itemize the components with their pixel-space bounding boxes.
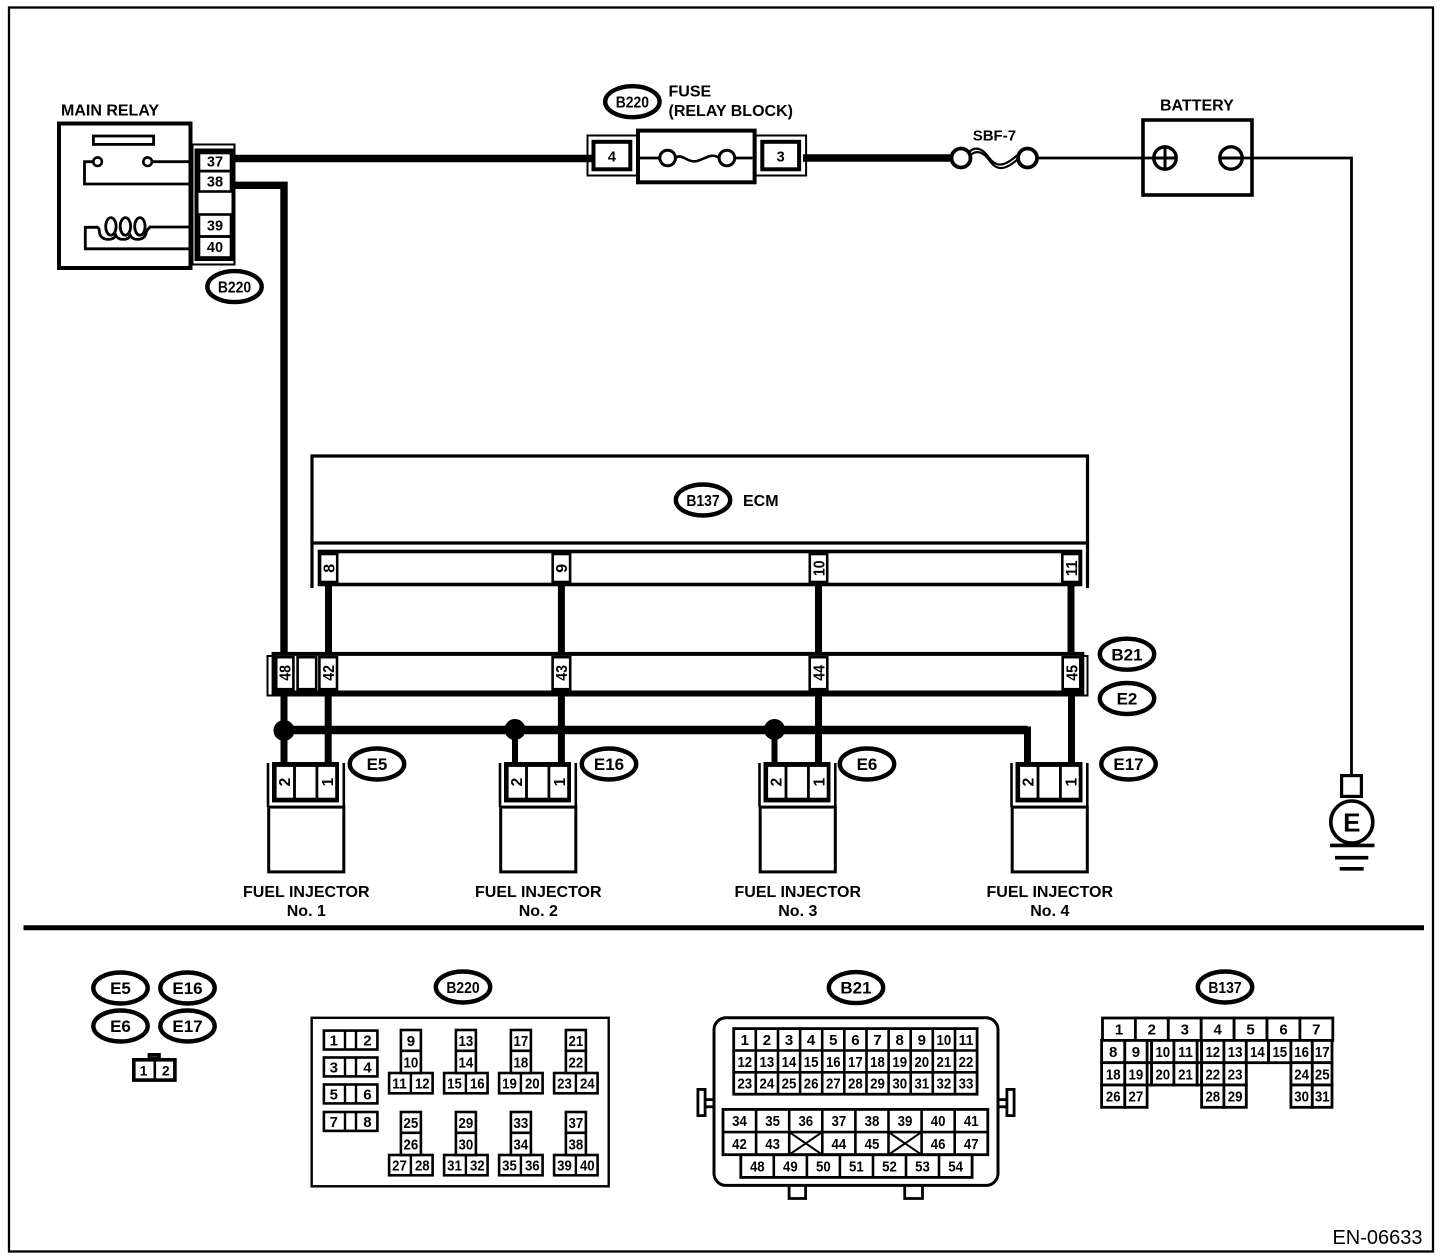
svg-text:7: 7: [330, 1114, 338, 1131]
svg-text:51: 51: [849, 1158, 864, 1175]
svg-text:1: 1: [741, 1032, 749, 1049]
svg-text:46: 46: [931, 1136, 946, 1153]
svg-text:39: 39: [557, 1158, 572, 1175]
svg-text:27: 27: [1129, 1089, 1144, 1106]
svg-text:9: 9: [554, 564, 571, 573]
pin 48: [276, 657, 293, 689]
bus drop to injector 2 pin 2: [512, 728, 518, 764]
svg-text:54: 54: [948, 1158, 963, 1175]
B220 pins 5/6: [324, 1085, 378, 1104]
svg-text:FUEL INJECTOR: FUEL INJECTOR: [243, 884, 370, 901]
main relay contact terminal left: [93, 157, 102, 166]
svg-text:36: 36: [798, 1113, 813, 1130]
pin 40: [199, 237, 231, 258]
svg-text:22: 22: [569, 1054, 584, 1071]
svg-text:43: 43: [554, 665, 571, 681]
wire ECM pin 11: [1068, 585, 1075, 655]
svg-text:21: 21: [937, 1054, 952, 1071]
wire to injector 4 pin 1: [1068, 692, 1075, 764]
svg-text:17: 17: [514, 1033, 529, 1050]
svg-text:(RELAY BLOCK): (RELAY BLOCK): [669, 103, 793, 120]
battery negative terminal: [1220, 147, 1242, 169]
fuel injector No.3: [760, 763, 836, 872]
svg-text:10: 10: [937, 1032, 952, 1049]
fuse terminal 4: [594, 142, 631, 170]
svg-text:4: 4: [363, 1059, 372, 1076]
svg-text:39: 39: [898, 1113, 913, 1130]
svg-text:17: 17: [1315, 1044, 1330, 1061]
B220 pins 33/34/35/36: [499, 1112, 542, 1175]
svg-text:53: 53: [915, 1158, 930, 1175]
svg-text:41: 41: [964, 1113, 979, 1130]
svg-text:18: 18: [870, 1054, 885, 1071]
svg-text:40: 40: [207, 240, 223, 256]
relay connector outline: [193, 145, 235, 265]
connector label B220 (main relay): [207, 271, 261, 302]
svg-text:12: 12: [1205, 1044, 1220, 1061]
battery box: [1143, 120, 1252, 195]
fusible link SBF-7: [952, 149, 1038, 169]
svg-text:2: 2: [763, 1032, 771, 1049]
wire ECM pin 8: [325, 585, 332, 655]
svg-text:2: 2: [162, 1062, 170, 1078]
svg-text:28: 28: [848, 1076, 863, 1093]
pin 45: [1063, 657, 1081, 689]
svg-text:16: 16: [470, 1076, 485, 1093]
svg-text:18: 18: [1106, 1066, 1121, 1083]
svg-text:6: 6: [851, 1032, 859, 1049]
B21 left tab: [698, 1089, 713, 1115]
connector view label E16: [160, 973, 214, 1004]
svg-text:49: 49: [783, 1158, 798, 1175]
bus drop to injector 3 pin 2: [772, 728, 778, 764]
fuse terminal 3 outline: [756, 136, 807, 176]
svg-text:5: 5: [330, 1086, 338, 1103]
svg-text:2: 2: [1020, 778, 1037, 787]
svg-text:43: 43: [765, 1136, 780, 1153]
svg-text:31: 31: [914, 1076, 929, 1093]
ground connector square: [1342, 776, 1362, 797]
wire relay contact to pin 37: [152, 160, 192, 163]
svg-text:24: 24: [760, 1076, 775, 1093]
svg-text:37: 37: [207, 155, 223, 171]
junction node injector 1: [274, 721, 294, 741]
fuse element: [640, 150, 753, 166]
svg-text:16: 16: [826, 1054, 841, 1071]
svg-text:37: 37: [832, 1113, 847, 1130]
svg-text:44: 44: [811, 665, 828, 681]
wire relay coil to pin 40: [85, 227, 192, 249]
ECM connector strip: [320, 552, 1081, 585]
svg-text:4: 4: [1214, 1022, 1223, 1039]
supply bus wire: [284, 726, 1028, 735]
svg-text:37: 37: [569, 1115, 584, 1132]
svg-text:38: 38: [865, 1113, 880, 1130]
svg-text:11: 11: [1178, 1044, 1193, 1061]
svg-text:1: 1: [330, 1032, 338, 1049]
main relay contact terminal right: [143, 157, 152, 166]
svg-text:33: 33: [514, 1115, 529, 1132]
wire pin 37 to fuse terminal 4: [234, 155, 595, 163]
svg-text:38: 38: [207, 175, 223, 191]
svg-text:50: 50: [816, 1158, 831, 1175]
svg-text:24: 24: [1294, 1066, 1309, 1083]
ground symbol: [1330, 845, 1375, 868]
svg-text:No. 4: No. 4: [1030, 903, 1069, 920]
main relay contact bar: [93, 136, 153, 144]
svg-text:38: 38: [569, 1136, 584, 1153]
connector label B220 (fuse): [605, 86, 659, 117]
connector view label B137: [1198, 972, 1252, 1003]
wire ECM pin 9: [558, 585, 565, 655]
svg-text:26: 26: [1106, 1089, 1121, 1106]
B137 pins grid: [1102, 1018, 1333, 1107]
B21 bottom tabs: [789, 1186, 806, 1199]
svg-text:28: 28: [1205, 1089, 1220, 1106]
svg-text:FUEL INJECTOR: FUEL INJECTOR: [475, 884, 602, 901]
bus drop to injector 4 pin 2: [1024, 727, 1031, 765]
svg-text:33: 33: [959, 1076, 974, 1093]
wire SBF-7 to battery: [1037, 157, 1155, 160]
svg-text:FUSE: FUSE: [669, 84, 712, 101]
svg-text:FUEL INJECTOR: FUEL INJECTOR: [735, 884, 862, 901]
connector label B137 (ECM): [676, 485, 730, 516]
pin 38: [199, 171, 231, 191]
svg-text:7: 7: [873, 1032, 881, 1049]
svg-text:EN-06633: EN-06633: [1332, 1227, 1422, 1249]
connector label E6: [840, 749, 894, 780]
junction node injector 2: [505, 720, 525, 740]
svg-text:B21: B21: [840, 979, 871, 998]
svg-text:22: 22: [1205, 1066, 1220, 1083]
fuel injector No.1: [268, 763, 344, 872]
svg-text:E5: E5: [110, 979, 131, 998]
svg-text:40: 40: [580, 1158, 595, 1175]
svg-text:No. 3: No. 3: [778, 903, 817, 920]
svg-text:9: 9: [407, 1033, 415, 1050]
svg-text:29: 29: [459, 1115, 474, 1132]
svg-text:29: 29: [1228, 1089, 1243, 1106]
svg-text:27: 27: [826, 1076, 841, 1093]
wire relay coil to pin 39: [149, 226, 193, 229]
svg-text:19: 19: [892, 1054, 907, 1071]
svg-text:19: 19: [502, 1076, 517, 1093]
ECM pin 11: [1062, 554, 1079, 582]
svg-text:17: 17: [848, 1054, 863, 1071]
svg-text:E6: E6: [857, 755, 878, 774]
battery positive terminal: [1154, 147, 1176, 169]
svg-text:11: 11: [959, 1032, 974, 1049]
svg-text:B21: B21: [1111, 645, 1142, 664]
svg-text:12: 12: [415, 1076, 430, 1093]
svg-text:10: 10: [811, 560, 828, 576]
svg-text:32: 32: [937, 1076, 952, 1093]
svg-text:23: 23: [1228, 1066, 1243, 1083]
svg-text:45: 45: [1064, 665, 1081, 681]
svg-text:2: 2: [768, 778, 785, 787]
connector label E2: [1100, 683, 1154, 714]
B21/E2 connector outline: [268, 656, 1088, 696]
pin 44: [810, 657, 828, 689]
ECM pin 8: [320, 554, 337, 582]
svg-text:13: 13: [459, 1033, 474, 1050]
svg-text:21: 21: [569, 1033, 584, 1050]
connector label B21: [1100, 639, 1154, 670]
svg-text:19: 19: [1129, 1066, 1144, 1083]
svg-text:B137: B137: [686, 493, 719, 510]
svg-text:15: 15: [1272, 1044, 1287, 1061]
svg-text:3: 3: [1181, 1022, 1189, 1039]
relay coil: [96, 218, 151, 240]
svg-text:13: 13: [1228, 1044, 1243, 1061]
svg-text:20: 20: [525, 1076, 540, 1093]
svg-text:15: 15: [447, 1076, 462, 1093]
svg-text:26: 26: [404, 1136, 419, 1153]
wire battery to ground E: [1242, 158, 1351, 775]
B220 connector view box: [312, 1018, 609, 1187]
svg-text:SBF-7: SBF-7: [973, 127, 1016, 144]
svg-text:39: 39: [207, 219, 223, 235]
svg-text:8: 8: [896, 1032, 904, 1049]
svg-text:4: 4: [608, 150, 616, 166]
B220 pins 1/2: [324, 1031, 378, 1050]
wire pin 48 to bus: [281, 692, 288, 764]
svg-text:1: 1: [1115, 1022, 1123, 1039]
wire to injector 2 pin 1: [558, 692, 565, 764]
svg-text:6: 6: [363, 1086, 371, 1103]
svg-text:5: 5: [1246, 1022, 1254, 1039]
svg-text:30: 30: [459, 1136, 474, 1153]
B220 pins 17/18/19/20: [499, 1030, 542, 1093]
svg-text:12: 12: [737, 1054, 752, 1071]
svg-text:1: 1: [320, 777, 337, 786]
B21 right tab: [999, 1089, 1014, 1115]
wire to injector 1 pin 1: [325, 692, 332, 764]
svg-text:20: 20: [914, 1054, 929, 1071]
wire pin 38 to ECM pin 48 net: [234, 185, 285, 655]
fuse terminal 3: [762, 142, 799, 170]
connector label E5: [350, 749, 404, 780]
svg-text:42: 42: [732, 1136, 747, 1153]
svg-text:35: 35: [765, 1113, 780, 1130]
svg-text:E6: E6: [110, 1017, 131, 1036]
svg-text:B220: B220: [616, 95, 649, 112]
connector view label E6: [93, 1011, 147, 1042]
svg-text:14: 14: [782, 1054, 797, 1071]
svg-text:29: 29: [870, 1076, 885, 1093]
B220 pins 9/10/11/12: [389, 1030, 433, 1093]
svg-text:34: 34: [514, 1136, 529, 1153]
svg-text:47: 47: [964, 1136, 979, 1153]
connector view label E17: [160, 1011, 214, 1042]
svg-text:2: 2: [1148, 1022, 1156, 1039]
svg-text:2: 2: [509, 778, 526, 787]
svg-text:25: 25: [782, 1076, 797, 1093]
svg-text:10: 10: [1155, 1044, 1170, 1061]
svg-text:E: E: [1343, 807, 1360, 837]
svg-text:23: 23: [737, 1076, 752, 1093]
connector label E17: [1101, 749, 1155, 780]
svg-text:23: 23: [557, 1076, 572, 1093]
svg-text:44: 44: [832, 1136, 847, 1153]
svg-text:1: 1: [811, 777, 828, 786]
svg-text:32: 32: [470, 1158, 485, 1175]
svg-text:B220: B220: [446, 980, 479, 997]
svg-text:8: 8: [1109, 1044, 1117, 1061]
svg-text:BATTERY: BATTERY: [1160, 98, 1234, 115]
svg-text:4: 4: [807, 1032, 816, 1049]
pin 37: [199, 153, 231, 171]
svg-text:FUEL INJECTOR: FUEL INJECTOR: [987, 884, 1114, 901]
B220 pins 3/4: [324, 1058, 378, 1077]
svg-text:35: 35: [502, 1158, 517, 1175]
junction node injector 3: [765, 720, 785, 740]
relay connector strip: [197, 151, 234, 260]
ground circle E: [1331, 801, 1373, 843]
wire relay contact to pin 38: [85, 162, 193, 184]
B220 pins 21/22/23/24: [554, 1030, 598, 1093]
injector connector view: [134, 1055, 175, 1081]
connector label E16: [582, 749, 636, 780]
svg-text:31: 31: [447, 1158, 462, 1175]
svg-text:24: 24: [580, 1076, 595, 1093]
wire ECM pin 10: [815, 585, 822, 655]
svg-text:E2: E2: [1117, 690, 1138, 709]
connector view label E5: [93, 973, 147, 1004]
svg-text:11: 11: [1064, 560, 1081, 576]
svg-text:48: 48: [750, 1158, 765, 1175]
B220 pins 37/38/39/40: [554, 1112, 598, 1175]
svg-text:11: 11: [392, 1076, 407, 1093]
svg-text:1: 1: [140, 1062, 148, 1078]
svg-text:22: 22: [959, 1054, 974, 1071]
svg-text:E16: E16: [594, 755, 624, 774]
svg-text:3: 3: [777, 150, 785, 166]
svg-text:14: 14: [1250, 1044, 1265, 1061]
ECM pin 10: [810, 554, 827, 582]
B21 connector view body: [714, 1018, 998, 1186]
svg-text:No. 1: No. 1: [287, 903, 326, 920]
pin 39: [199, 215, 231, 237]
B220 pins 25/26/27/28: [389, 1112, 433, 1175]
B220 pins 13/14/15/16: [444, 1030, 488, 1093]
svg-text:3: 3: [330, 1059, 338, 1076]
svg-text:E17: E17: [172, 1017, 202, 1036]
fuel injector No.2: [500, 763, 576, 872]
wire terminal 3 to SBF-7: [803, 154, 952, 162]
svg-text:MAIN RELAY: MAIN RELAY: [61, 103, 159, 120]
ECM pin 9: [553, 554, 570, 582]
ECM box: [312, 456, 1088, 588]
svg-text:52: 52: [882, 1158, 897, 1175]
svg-text:20: 20: [1155, 1066, 1170, 1083]
fuse terminal 4 outline: [588, 136, 639, 176]
svg-text:5: 5: [829, 1032, 837, 1049]
svg-text:8: 8: [363, 1114, 371, 1131]
svg-text:25: 25: [1315, 1066, 1330, 1083]
svg-text:No. 2: No. 2: [519, 903, 558, 920]
B21/E2 connector strip: [274, 654, 1083, 693]
svg-text:26: 26: [804, 1076, 819, 1093]
B21 pins 34-47 grid: [723, 1109, 988, 1154]
svg-text:30: 30: [892, 1076, 907, 1093]
pin 43: [553, 657, 571, 689]
svg-text:31: 31: [1315, 1089, 1330, 1106]
svg-text:B137: B137: [1208, 980, 1241, 997]
B21 pins 48-54 row: [741, 1155, 972, 1178]
connector view label B21: [829, 972, 883, 1003]
svg-text:E16: E16: [172, 979, 202, 998]
svg-text:8: 8: [321, 564, 338, 573]
svg-text:9: 9: [1132, 1044, 1140, 1061]
fuse box: [638, 131, 755, 183]
svg-text:E17: E17: [1113, 755, 1143, 774]
fuel injector No.4: [1012, 763, 1088, 872]
svg-text:ECM: ECM: [743, 493, 779, 510]
B220 pins 7/8: [324, 1112, 378, 1131]
svg-text:10: 10: [404, 1054, 419, 1071]
main relay box: [59, 124, 191, 269]
blank cell: [298, 657, 317, 689]
svg-text:E5: E5: [367, 755, 388, 774]
svg-text:21: 21: [1178, 1066, 1193, 1083]
svg-text:1: 1: [1063, 777, 1080, 786]
svg-text:36: 36: [525, 1158, 540, 1175]
svg-text:6: 6: [1279, 1022, 1287, 1039]
svg-text:30: 30: [1294, 1089, 1309, 1106]
svg-text:42: 42: [321, 665, 338, 681]
svg-text:2: 2: [277, 778, 294, 787]
svg-text:25: 25: [404, 1115, 419, 1132]
svg-text:14: 14: [459, 1054, 474, 1071]
svg-text:B220: B220: [218, 279, 251, 296]
svg-text:15: 15: [804, 1054, 819, 1071]
svg-text:16: 16: [1294, 1044, 1309, 1061]
svg-text:1: 1: [552, 777, 569, 786]
svg-text:13: 13: [760, 1054, 775, 1071]
wire to injector 3 pin 1: [815, 692, 822, 764]
svg-text:9: 9: [918, 1032, 926, 1049]
svg-text:18: 18: [514, 1054, 529, 1071]
svg-text:48: 48: [278, 665, 295, 681]
svg-text:7: 7: [1312, 1022, 1320, 1039]
B220 pins 29/30/31/32: [444, 1112, 488, 1175]
svg-text:2: 2: [363, 1032, 371, 1049]
svg-text:40: 40: [931, 1113, 946, 1130]
B21 pins 1-33 grid: [734, 1029, 977, 1095]
svg-text:45: 45: [865, 1136, 880, 1153]
svg-text:27: 27: [392, 1158, 407, 1175]
svg-text:28: 28: [415, 1158, 430, 1175]
pin 42: [319, 657, 337, 689]
svg-text:3: 3: [785, 1032, 793, 1049]
connector view label B220: [436, 972, 490, 1003]
svg-text:34: 34: [732, 1113, 747, 1130]
